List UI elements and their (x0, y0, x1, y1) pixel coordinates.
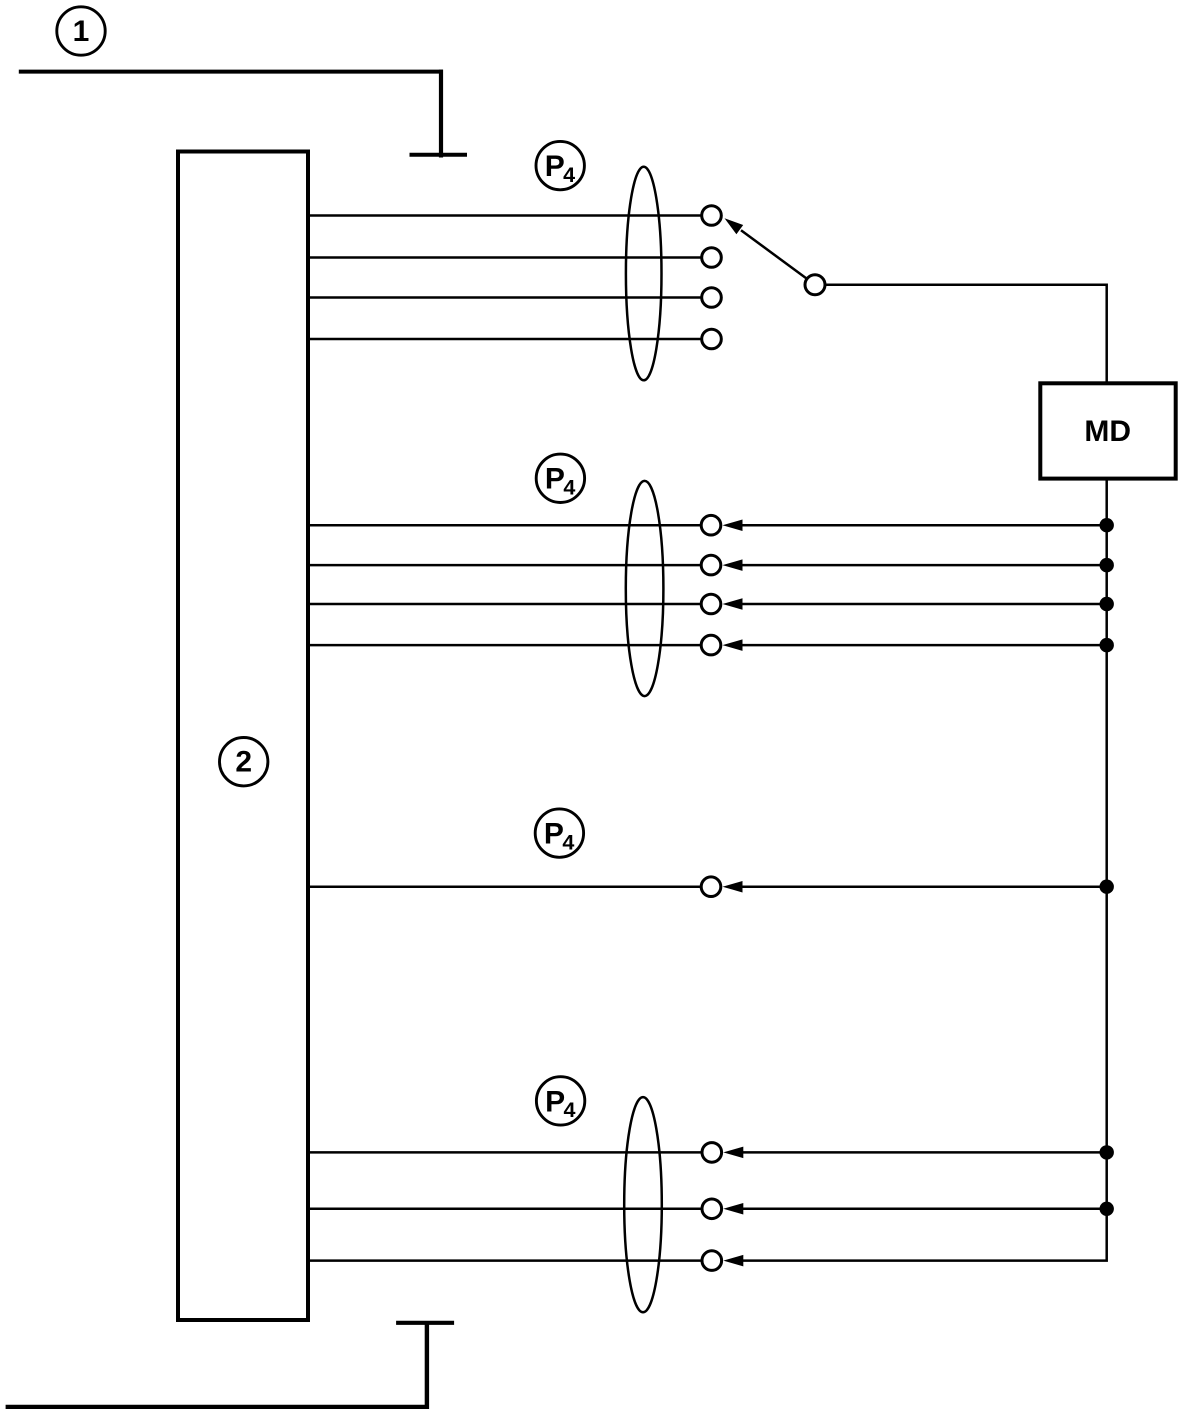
svg-text:2: 2 (235, 746, 252, 779)
svg-text:1: 1 (73, 15, 90, 48)
svg-text:MD: MD (1084, 415, 1131, 448)
